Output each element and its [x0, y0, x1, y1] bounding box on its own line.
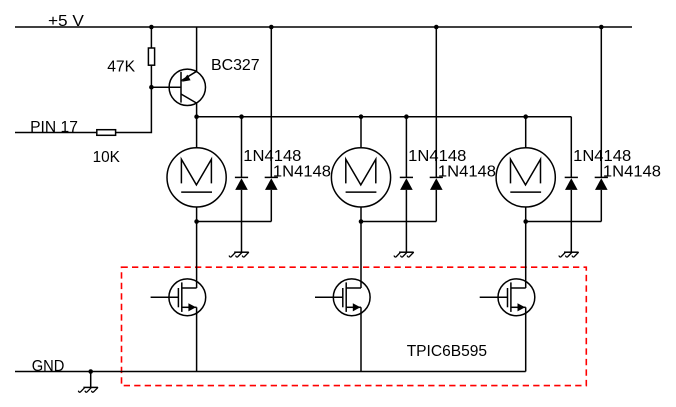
- junction dot +5V rail / diode D6: [599, 25, 604, 30]
- wire switched motor supply rail (rail2): [197, 116, 572, 118]
- wire drain node to MOSFET 2: [360, 222, 362, 289]
- junction dot +5V rail / diode D4: [434, 25, 439, 30]
- wire rail2 to diode D5 cathode: [570, 117, 572, 178]
- wire PIN 17 to 10K resistor: [15, 132, 97, 134]
- ground symbol below D3: [394, 252, 413, 257]
- junction dot rail2 / diode D1: [239, 114, 244, 119]
- junction dot rail2 / motor 3 top: [523, 114, 528, 119]
- wire MOSFET 3 source to GND rail: [525, 307, 527, 371]
- junction dot +5V rail / 47K: [149, 25, 154, 30]
- wire rail2 to motor 3: [525, 117, 527, 148]
- wire 10K resistor to base node corner: [116, 87, 152, 132]
- svg-text:47K: 47K: [107, 58, 135, 75]
- ground symbol GND: [79, 387, 98, 392]
- wire diode D1 anode to ground: [241, 190, 243, 252]
- svg-text:TPIC6B595: TPIC6B595: [407, 343, 487, 360]
- MOSFET Q4 (TPIC6B595 output): [480, 279, 535, 316]
- diode D5 1N4148: [565, 177, 578, 190]
- MOSFET Q2 (TPIC6B595 output): [151, 279, 206, 316]
- svg-text:1N4148: 1N4148: [603, 163, 661, 180]
- wire motor 3 bottom to drain node: [525, 207, 527, 222]
- svg-text:1N4148: 1N4148: [273, 163, 331, 180]
- diode D4 1N4148: [430, 177, 443, 190]
- wire diode D3 anode to ground: [405, 190, 407, 252]
- svg-text:10K: 10K: [93, 149, 121, 166]
- diode D2 1N4148: [265, 177, 278, 190]
- wire rail2 to diode D1 cathode: [241, 117, 243, 178]
- wire +5V rail to diode D2 cathode: [270, 27, 272, 177]
- wire diode D4 anode to drain node: [435, 190, 437, 222]
- svg-text:PIN 17: PIN 17: [30, 119, 78, 136]
- diode D3 1N4148: [400, 177, 413, 190]
- wire drain node 2 to diode anode: [361, 221, 436, 223]
- junction dot base node: [149, 85, 154, 90]
- junction dot motor 1 drain node: [194, 219, 199, 224]
- MOSFET Q3 (TPIC6B595 output): [315, 279, 370, 316]
- junction dot rail2 / diode D3: [404, 114, 409, 119]
- wire MOSFET 2 source to GND rail: [360, 307, 362, 371]
- wire diode D6 anode to drain node: [600, 190, 602, 222]
- wire rail2 to diode D3 cathode: [405, 117, 407, 178]
- wire rail2 to motor 1: [196, 117, 198, 148]
- wire +5V rail to 47K resistor: [150, 27, 152, 48]
- resistor R2 10K: [97, 130, 116, 136]
- wire base lead: [151, 86, 181, 88]
- wire diode D2 anode to drain node: [270, 190, 272, 222]
- junction dot +5V rail / diode D2: [269, 25, 274, 30]
- transistor Q1 BC327: [169, 69, 205, 105]
- svg-text:GND: GND: [32, 358, 65, 375]
- wire drain node 1 to diode anode: [197, 221, 272, 223]
- wire GND rail to ground symbol: [90, 372, 92, 388]
- wire +5V rail to diode D6 cathode: [600, 27, 602, 177]
- diode D1 1N4148: [235, 177, 248, 190]
- IC boundary box TPIC6B595 (red dashed): [122, 267, 587, 385]
- resistor R1 47K: [148, 48, 154, 65]
- svg-text:1N4148: 1N4148: [438, 163, 496, 180]
- motor M3: [496, 148, 555, 207]
- wire collector to rail2: [196, 103, 198, 117]
- svg-text:BC327: BC327: [211, 57, 260, 74]
- junction dot rail2 / motor 1 top: [194, 114, 199, 119]
- wire rail2 to motor 2: [360, 117, 362, 148]
- wire drain node 3 to diode anode: [526, 221, 602, 223]
- motor M1: [167, 148, 226, 207]
- ground symbol below D1: [229, 252, 248, 257]
- junction dot rail2 / motor 2 top: [359, 114, 364, 119]
- wire motor 1 bottom to drain node: [196, 207, 198, 222]
- wire drain node to MOSFET 3: [525, 222, 527, 289]
- diode D6 1N4148: [595, 177, 608, 190]
- wire diode D5 anode to ground: [570, 190, 572, 252]
- junction dot motor 3 drain node: [523, 219, 528, 224]
- junction dot GND rail / ground symbol: [88, 369, 93, 374]
- wire motor 2 bottom to drain node: [360, 207, 362, 222]
- wire drain node to MOSFET 1: [196, 222, 198, 289]
- wire MOSFET 1 source to GND rail: [196, 307, 198, 371]
- wire +5V rail to diode D4 cathode: [435, 27, 437, 177]
- svg-text:+5 V: +5 V: [48, 13, 84, 30]
- wire +5V top rail: [15, 26, 632, 28]
- wire emitter lead from +5V rail: [196, 27, 198, 71]
- wire GND bottom rail: [15, 371, 526, 373]
- motor M2: [331, 148, 390, 207]
- junction dot motor 2 drain node: [359, 219, 364, 224]
- ground symbol below D5: [559, 252, 578, 257]
- wire 47K resistor to base node: [150, 65, 152, 87]
